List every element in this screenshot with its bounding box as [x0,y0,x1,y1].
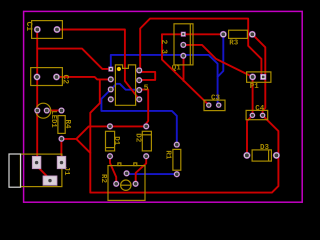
diode D1 outline [106,131,115,151]
wire red LED right to R4 top [47,109,62,111]
svg-text:C4: C4 [255,105,265,113]
resistor R3 outline [229,30,248,38]
wire red C1 right to IC pin5 [57,30,139,100]
IC1 pin-1 dot [117,67,121,71]
wire blue IC pin3 to IC pin6 [111,84,139,90]
resistor R1 outline [173,149,181,170]
wire blue IC pin3 to R1 top pad [101,89,176,144]
wire red C4 left to D3 left [247,115,252,155]
wire red R3 right pad to C4 right pad [252,34,265,115]
pads P1 [249,73,256,80]
board outline (Dimension layer) [24,11,303,202]
pads C2 [34,73,41,80]
wire red R4 bottom to J1 pad B [60,139,62,163]
wire red C2 right to IC pin2 [57,77,111,80]
pads C4 [250,112,256,118]
pads IC1 right (5-8) [136,96,142,102]
wire red R4 bottom to D1/D2 top rail [76,126,146,138]
wire red branch to C3 left pad [162,34,209,105]
trimmer R2 outline [108,163,145,201]
capacitor C2 outline [31,68,63,86]
svg-text:C1: C1 [24,22,33,32]
pads R1 [174,141,180,147]
pads D1 [107,123,113,129]
pads D3 [243,152,250,159]
wire red Q1 middle pad to P1 round pad [183,45,252,77]
svg-text:R4: R4 [63,120,71,130]
connector J1 housing (off-board, white) [9,154,21,187]
svg-text:P1: P1 [250,83,260,91]
resistor R4 outline [58,116,65,134]
svg-text:D3: D3 [260,144,270,152]
pads J1 (SMD) [32,156,66,185]
wire red IC pin6 to D2 top [139,90,148,127]
capacitor C3 outline [204,100,225,111]
svg-text:Q1: Q1 [172,64,182,72]
diode D2 outline [142,131,151,151]
wire red pin2 node down, bottom loop, D3 right, C4 right [90,79,278,192]
wire red P1 round pad to C4 left pad [252,77,254,116]
pads D2 [143,123,149,129]
svg-text:5: 5 [144,84,149,93]
LED LED1 outline [36,103,51,118]
svg-text:R1: R1 [163,150,171,160]
svg-text:R3: R3 [229,40,239,48]
pads C3 [206,102,212,108]
wire red Q1 bottom pad stub [183,56,185,81]
pads R3 [220,31,227,38]
wire red J1 pad A to pad C [37,166,49,178]
wire red IC pin8 to P1 square pad [140,19,261,77]
connector J1 outline [20,154,62,187]
svg-text:C2: C2 [61,75,70,85]
wire red D1 bottom to R2 left [110,156,116,184]
capacitor C4 outline [246,110,268,119]
wire red D2 bottom to R2 right [136,156,147,184]
wire blue R2 wiper to R1 bottom pad [127,173,177,175]
pads LED1 [34,107,40,113]
pads R4 [58,107,64,113]
svg-text:R2: R2 [99,174,107,184]
connector P1 outline [247,72,271,82]
wire blue R3 left pad branch [218,37,224,76]
op-amp IC1 (DIP-8) outline [115,65,135,105]
wire red C1 left to IC pin1 [37,49,111,69]
wire red IC pin7-pin8 U [139,72,155,80]
wire blue IC pin1 to C3 right pad [111,55,218,105]
wire red C1/C2/LED/J1-A vertical [36,33,38,163]
wire red Q1 square pad to R3 left pad [162,33,223,35]
svg-text:2 3: 2 3 [159,40,168,55]
svg-text:LED1: LED1 [49,111,57,129]
svg-text:D2: D2 [133,133,141,143]
pads C1 [34,26,41,33]
pads IC1 left (1-4) [108,67,113,72]
capacitor C1 outline [32,21,63,39]
transistor Q1 outline [174,24,193,65]
svg-text:C3: C3 [211,94,221,102]
pads Q1 [181,32,186,37]
diode D3 outline [252,150,271,161]
svg-text:D1: D1 [112,136,120,146]
pads R2 [123,170,129,176]
wire red R4 bottom junction diag [62,139,91,153]
